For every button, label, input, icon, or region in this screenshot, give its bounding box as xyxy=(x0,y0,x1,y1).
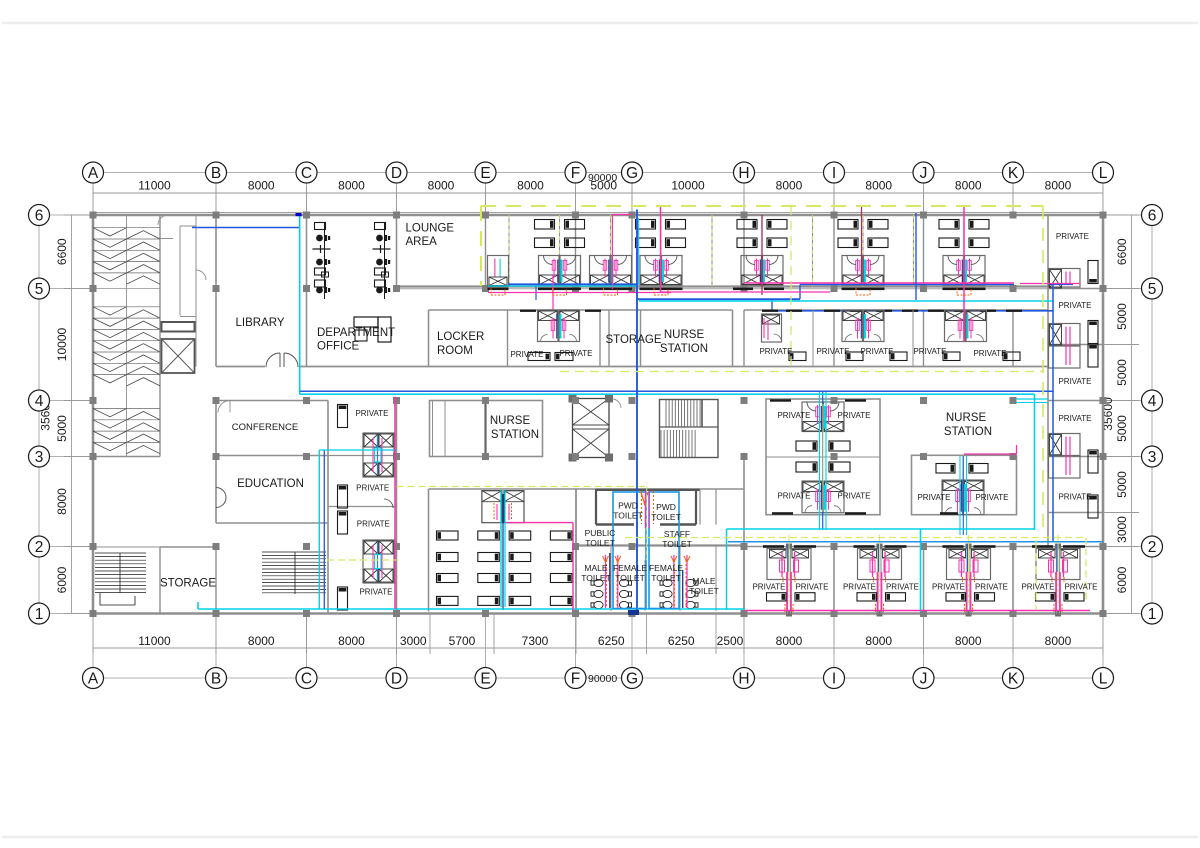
svg-text:NURSE: NURSE xyxy=(946,412,987,424)
svg-text:6250: 6250 xyxy=(668,634,695,648)
svg-text:PRIVATE: PRIVATE xyxy=(759,347,792,356)
svg-text:I: I xyxy=(832,165,836,182)
svg-text:AREA: AREA xyxy=(406,236,438,248)
svg-text:PRIVATE: PRIVATE xyxy=(777,411,810,420)
svg-text:TOILET: TOILET xyxy=(613,511,643,521)
svg-text:PRIVATE: PRIVATE xyxy=(886,583,919,592)
svg-text:FEMALE: FEMALE xyxy=(649,563,683,573)
svg-text:PWD: PWD xyxy=(618,501,638,511)
svg-text:A: A xyxy=(88,165,99,182)
svg-text:5000: 5000 xyxy=(1115,471,1129,498)
svg-text:8000: 8000 xyxy=(776,634,803,648)
svg-text:D: D xyxy=(391,165,402,182)
svg-text:PRIVATE: PRIVATE xyxy=(356,484,389,493)
svg-text:E: E xyxy=(480,165,490,182)
svg-text:STATION: STATION xyxy=(660,343,708,355)
svg-text:8000: 8000 xyxy=(865,179,892,193)
svg-text:STORAGE: STORAGE xyxy=(605,334,661,346)
svg-text:5000: 5000 xyxy=(1115,303,1129,330)
svg-text:B: B xyxy=(211,165,221,182)
svg-text:5000: 5000 xyxy=(1115,359,1129,386)
svg-text:8000: 8000 xyxy=(955,634,982,648)
svg-text:I: I xyxy=(832,671,836,688)
svg-text:D: D xyxy=(391,671,402,688)
svg-text:J: J xyxy=(920,165,928,182)
svg-text:C: C xyxy=(301,165,312,182)
svg-text:90000: 90000 xyxy=(588,673,617,685)
svg-text:8000: 8000 xyxy=(338,634,365,648)
svg-text:6250: 6250 xyxy=(598,634,625,648)
svg-text:PRIVATE: PRIVATE xyxy=(917,493,950,502)
svg-text:PRIVATE: PRIVATE xyxy=(510,350,543,359)
svg-text:H: H xyxy=(738,671,749,688)
svg-text:10000: 10000 xyxy=(671,179,705,193)
svg-text:8000: 8000 xyxy=(248,634,275,648)
svg-text:LOUNGE: LOUNGE xyxy=(406,223,455,235)
svg-text:TOILET: TOILET xyxy=(581,573,611,583)
svg-text:PRIVATE: PRIVATE xyxy=(559,349,592,358)
svg-text:8000: 8000 xyxy=(517,179,544,193)
svg-text:6000: 6000 xyxy=(1115,566,1129,593)
svg-text:PRIVATE: PRIVATE xyxy=(932,583,965,592)
svg-text:CONFERENCE: CONFERENCE xyxy=(232,422,299,433)
svg-text:PRIVATE: PRIVATE xyxy=(1021,583,1054,592)
svg-text:MALE: MALE xyxy=(584,563,607,573)
svg-text:H: H xyxy=(738,165,749,182)
svg-text:PRIVATE: PRIVATE xyxy=(973,349,1006,358)
svg-text:NURSE: NURSE xyxy=(490,415,531,427)
svg-text:PRIVATE: PRIVATE xyxy=(359,588,392,597)
svg-text:1: 1 xyxy=(35,606,44,623)
svg-text:B: B xyxy=(211,671,221,688)
svg-text:8000: 8000 xyxy=(428,179,455,193)
svg-text:TOILET: TOILET xyxy=(689,586,719,596)
svg-text:K: K xyxy=(1008,671,1019,688)
svg-text:7300: 7300 xyxy=(522,634,549,648)
svg-text:F: F xyxy=(571,165,580,182)
svg-text:6600: 6600 xyxy=(1115,238,1129,265)
svg-text:PWD: PWD xyxy=(656,502,676,512)
svg-text:NURSE: NURSE xyxy=(664,329,705,341)
svg-text:3: 3 xyxy=(1148,449,1157,466)
svg-text:LIBRARY: LIBRARY xyxy=(235,317,284,329)
svg-text:6000: 6000 xyxy=(55,566,69,593)
svg-text:8000: 8000 xyxy=(776,179,803,193)
svg-text:8000: 8000 xyxy=(955,179,982,193)
svg-text:PRIVATE: PRIVATE xyxy=(355,409,388,418)
svg-text:PRIVATE: PRIVATE xyxy=(975,493,1008,502)
svg-text:PRIVATE: PRIVATE xyxy=(1064,583,1097,592)
svg-text:FEMALE: FEMALE xyxy=(613,563,647,573)
svg-text:8000: 8000 xyxy=(1045,179,1072,193)
svg-text:ROOM: ROOM xyxy=(437,345,473,357)
svg-text:10000: 10000 xyxy=(55,327,69,361)
svg-text:G: G xyxy=(626,671,638,688)
svg-text:3: 3 xyxy=(35,449,44,466)
svg-text:11000: 11000 xyxy=(138,634,171,648)
svg-text:PRIVATE: PRIVATE xyxy=(837,492,870,501)
svg-text:STAFF: STAFF xyxy=(664,529,690,539)
svg-text:TOILET: TOILET xyxy=(651,512,681,522)
svg-text:5: 5 xyxy=(35,281,44,298)
svg-text:STATION: STATION xyxy=(491,429,539,441)
svg-text:F: F xyxy=(571,671,580,688)
svg-text:E: E xyxy=(480,671,490,688)
svg-text:PRIVATE: PRIVATE xyxy=(752,583,785,592)
svg-text:OFFICE: OFFICE xyxy=(317,341,359,353)
svg-text:DEPARTMENT: DEPARTMENT xyxy=(317,327,395,339)
svg-text:3000: 3000 xyxy=(1115,516,1129,543)
svg-text:A: A xyxy=(88,671,99,688)
svg-text:EDUCATION: EDUCATION xyxy=(237,478,304,490)
svg-text:TOILET: TOILET xyxy=(662,539,692,549)
svg-text:4: 4 xyxy=(35,393,44,410)
svg-text:PRIVATE: PRIVATE xyxy=(843,583,876,592)
svg-text:PRIVATE: PRIVATE xyxy=(975,583,1008,592)
svg-text:STATION: STATION xyxy=(944,426,992,438)
svg-text:5000: 5000 xyxy=(55,415,69,442)
svg-text:PRIVATE: PRIVATE xyxy=(1058,301,1091,310)
svg-text:TOILET: TOILET xyxy=(651,573,681,583)
svg-text:8000: 8000 xyxy=(338,179,365,193)
svg-text:6: 6 xyxy=(1148,208,1157,225)
svg-text:C: C xyxy=(301,671,312,688)
svg-text:TOILET: TOILET xyxy=(615,573,645,583)
svg-text:2500: 2500 xyxy=(717,634,744,648)
svg-text:2: 2 xyxy=(1148,539,1157,556)
svg-text:G: G xyxy=(626,165,638,182)
svg-text:5700: 5700 xyxy=(449,634,476,648)
svg-text:8000: 8000 xyxy=(248,179,275,193)
svg-text:PRIVATE: PRIVATE xyxy=(357,519,390,528)
svg-text:L: L xyxy=(1099,671,1108,688)
svg-text:8000: 8000 xyxy=(865,634,892,648)
svg-text:6: 6 xyxy=(35,208,44,225)
svg-text:8000: 8000 xyxy=(55,488,69,515)
svg-text:J: J xyxy=(920,671,928,688)
svg-text:11000: 11000 xyxy=(138,179,171,193)
svg-text:PRIVATE: PRIVATE xyxy=(860,347,893,356)
svg-text:PRIVATE: PRIVATE xyxy=(913,347,946,356)
svg-text:PUBLIC: PUBLIC xyxy=(585,528,616,538)
svg-text:PRIVATE: PRIVATE xyxy=(1056,232,1089,241)
svg-text:5000: 5000 xyxy=(1115,415,1129,442)
svg-text:PRIVATE: PRIVATE xyxy=(1058,493,1091,502)
svg-text:6600: 6600 xyxy=(55,238,69,265)
svg-text:K: K xyxy=(1008,165,1019,182)
svg-text:4: 4 xyxy=(1148,393,1157,410)
svg-text:TOILET: TOILET xyxy=(585,538,615,548)
svg-text:PRIVATE: PRIVATE xyxy=(777,492,810,501)
svg-text:PRIVATE: PRIVATE xyxy=(1058,414,1091,423)
svg-text:L: L xyxy=(1099,165,1108,182)
svg-text:8000: 8000 xyxy=(1045,634,1072,648)
svg-text:LOCKER: LOCKER xyxy=(437,331,484,343)
svg-text:PRIVATE: PRIVATE xyxy=(816,347,849,356)
svg-text:MALE: MALE xyxy=(692,576,715,586)
svg-text:STORAGE: STORAGE xyxy=(160,578,216,590)
svg-text:90000: 90000 xyxy=(588,172,617,184)
svg-text:1: 1 xyxy=(1148,606,1157,623)
svg-text:PRIVATE: PRIVATE xyxy=(837,411,870,420)
svg-text:2: 2 xyxy=(35,539,44,556)
svg-text:3000: 3000 xyxy=(400,634,427,648)
svg-text:PRIVATE: PRIVATE xyxy=(1058,377,1091,386)
svg-text:PRIVATE: PRIVATE xyxy=(795,583,828,592)
svg-text:5: 5 xyxy=(1148,281,1157,298)
